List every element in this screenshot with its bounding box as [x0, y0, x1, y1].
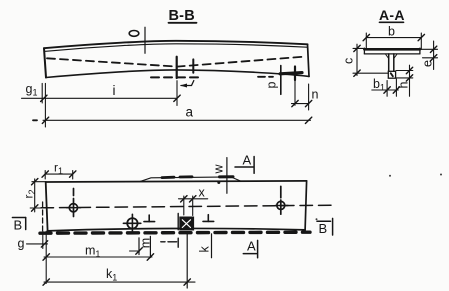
right tick short [294, 67, 296, 81]
svg-text:B: B [14, 218, 23, 233]
svg-text:n: n [312, 88, 319, 102]
dim g [18, 231, 48, 283]
anchor bar right [280, 73, 302, 74]
dim m rotated [130, 236, 153, 257]
svg-text:r1: r1 [54, 161, 63, 177]
dim m1 [43, 244, 154, 261]
specks [316, 174, 443, 221]
tendon dashed line [47, 57, 303, 67]
lifting loop 2 [275, 186, 288, 214]
view title B-B [169, 8, 197, 24]
midspan tick [144, 27, 146, 53]
svg-text:k: k [198, 246, 212, 253]
beam outline (side view) [44, 41, 309, 78]
strand anchor mid [123, 214, 140, 231]
svg-text:b: b [388, 25, 395, 39]
svg-text:x: x [199, 186, 206, 200]
section mark A top [235, 153, 254, 174]
dim n [292, 80, 319, 110]
svg-text:g1: g1 [26, 82, 38, 98]
svg-text:A-A: A-A [379, 7, 405, 23]
embed plate [178, 214, 193, 231]
symbol perp 1 [144, 215, 155, 222]
lifting loop 1 [67, 189, 81, 217]
right tick long [280, 66, 282, 95]
hidden left edge dash [42, 202, 44, 231]
svg-text:b1: b1 [373, 77, 385, 93]
svg-text:a: a [186, 105, 194, 120]
section mark B left [12, 218, 25, 233]
svg-text:c: c [342, 58, 356, 64]
section trace thick dashed [40, 232, 310, 233]
svg-text:g: g [18, 237, 25, 251]
section mark A bottom [243, 239, 257, 258]
hidden dash under beam [151, 76, 201, 78]
camber hook f [180, 81, 194, 88]
dim r1 [42, 161, 76, 180]
dim r2 [22, 179, 46, 212]
tendon tick 1 [176, 57, 178, 78]
hidden dashes right [258, 76, 273, 78]
tendon tick 2 [192, 59, 194, 72]
svg-text:w: w [212, 164, 226, 175]
symbol perp 2 [203, 215, 214, 222]
tack symbol [161, 238, 178, 247]
plan centerline [41, 205, 334, 208]
svg-text:B-B: B-B [169, 8, 195, 24]
section mark B right [317, 218, 333, 236]
hump dashes [162, 177, 233, 184]
dim e [421, 41, 438, 70]
camber label o [129, 31, 139, 37]
view title A-A [379, 7, 405, 23]
svg-text:e: e [421, 60, 435, 67]
svg-text:m1: m1 [85, 244, 100, 260]
dim h [396, 65, 413, 96]
dim b1 [372, 77, 400, 96]
dim x [179, 186, 208, 216]
dim i [113, 81, 181, 106]
svg-text:B: B [319, 221, 328, 236]
dim b [363, 25, 424, 50]
dim g1 and i line [22, 82, 178, 127]
dim a [33, 105, 312, 124]
plan outline [46, 177, 307, 231]
dim w [212, 158, 227, 194]
dim k [198, 234, 212, 258]
svg-text:A: A [247, 239, 256, 254]
svg-text:m: m [138, 238, 152, 248]
svg-text:k1: k1 [106, 267, 117, 283]
svg-text:A: A [243, 153, 252, 168]
svg-text:r2: r2 [22, 189, 38, 198]
T-section outline [364, 48, 420, 78]
svg-text:p: p [265, 82, 279, 89]
svg-text:i: i [113, 83, 116, 98]
dim k1 [43, 233, 195, 289]
dim c [342, 44, 389, 76]
